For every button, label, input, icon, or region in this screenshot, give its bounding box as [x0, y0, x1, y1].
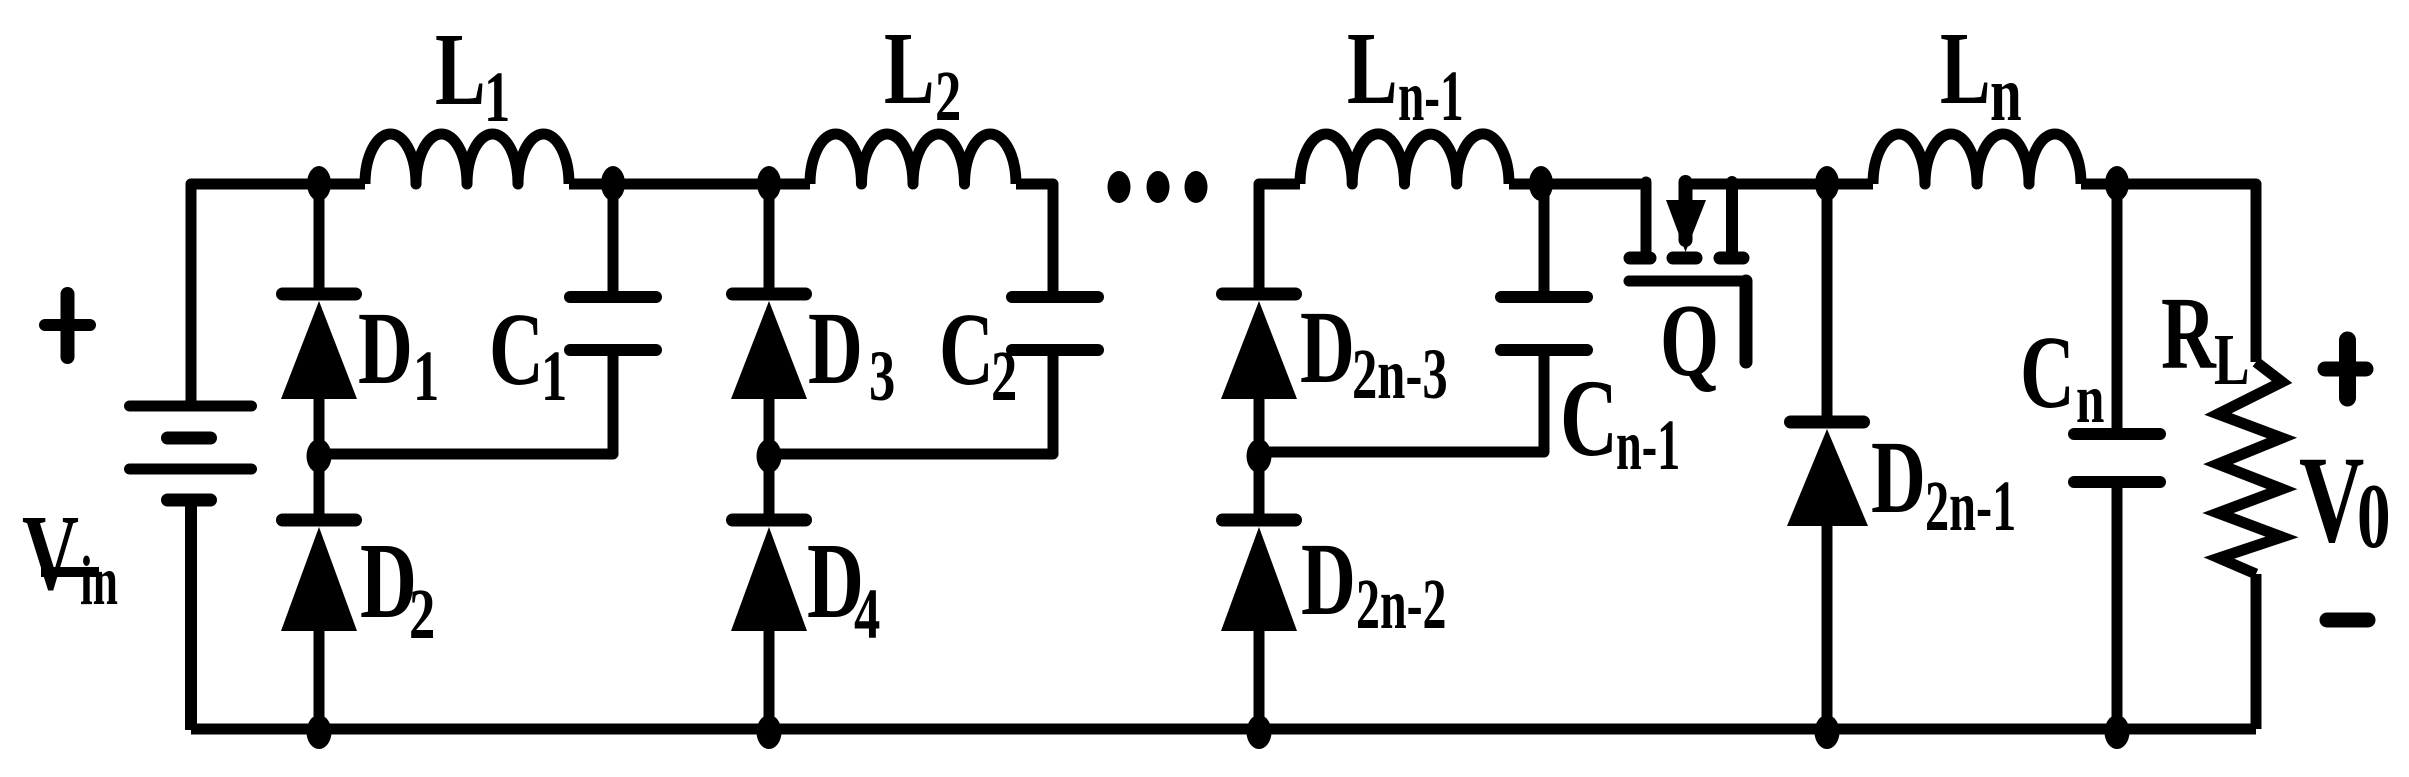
label Ln — [1940, 10, 2022, 137]
svg-text:n: n — [2076, 360, 2104, 438]
wire D3 column — [764, 184, 775, 299]
node bottom Cn — [2105, 715, 2130, 749]
node mid D3 — [757, 439, 782, 473]
svg-text:in: in — [80, 542, 118, 620]
svg-text:C: C — [2020, 314, 2075, 429]
resistor RL zigzag — [2218, 362, 2282, 574]
wire cell3 left corner stub — [1259, 184, 1300, 300]
node top D3 — [757, 166, 781, 201]
svg-text:n: n — [1990, 50, 2022, 137]
label Vin — [22, 494, 118, 620]
transistor Q (MOSFET) — [1629, 182, 1746, 362]
svg-text:L: L — [1940, 10, 1991, 125]
wire mid node to D4 — [764, 448, 775, 525]
node top Cn — [2105, 166, 2129, 201]
inductor L1 — [365, 134, 569, 184]
diode D1 — [281, 294, 357, 399]
svg-text:D: D — [358, 290, 413, 405]
diode D2n-2 — [1221, 520, 1297, 631]
svg-text:1: 1 — [541, 336, 567, 416]
label Cn-1 — [1560, 357, 1680, 485]
wire top rail between L1 and L2 — [569, 179, 810, 190]
svg-text:V: V — [22, 494, 79, 613]
wire mid node to D2n-2 — [1254, 448, 1265, 525]
label C2 — [939, 291, 1017, 416]
label Ln-1 — [1347, 10, 1464, 136]
label Cn — [2020, 314, 2104, 438]
capacitor C2 — [1012, 297, 1098, 350]
wire top rail left segment — [191, 184, 365, 406]
wire battery bottom lead — [185, 500, 197, 730]
wire L2 to C2 corner — [1016, 184, 1053, 292]
wire D2n-2 to bottom rail — [1254, 629, 1265, 729]
svg-text:3: 3 — [869, 336, 895, 416]
wire Cn bottom lead — [2112, 488, 2123, 729]
svg-text:1: 1 — [484, 57, 510, 137]
svg-text:4: 4 — [854, 574, 880, 654]
svg-text:L: L — [2214, 319, 2250, 400]
svg-text:D: D — [1871, 419, 1926, 534]
svg-text:L: L — [435, 11, 486, 126]
svg-text:2: 2 — [409, 574, 435, 654]
node top D1 — [307, 166, 331, 201]
wire top rail Ln-1 to MOSFET drain corner — [1509, 179, 1651, 190]
node top Ln-1 right — [1529, 166, 1553, 201]
label L2 — [884, 10, 961, 136]
label D3 — [808, 290, 895, 416]
wire mid node to C1 elbow — [319, 354, 613, 454]
node mid D2n-3 — [1247, 439, 1272, 473]
wire D2 to bottom rail — [314, 629, 325, 729]
wire D3 to mid node — [764, 397, 775, 460]
svg-text:V: V — [2299, 431, 2364, 568]
svg-text:R: R — [2161, 275, 2217, 390]
plus sign input — [45, 294, 90, 357]
diode D2 — [281, 520, 357, 631]
plus sign output — [2325, 340, 2366, 398]
wire D2n-3 to mid node — [1254, 397, 1265, 460]
wire D2n-1 column — [1822, 184, 1833, 427]
svg-text:L: L — [884, 10, 935, 125]
ellipsis dots — [1108, 171, 1131, 203]
wire Cn top lead — [2112, 184, 2123, 428]
node bottom D4 — [757, 715, 782, 749]
capacitor Cn-1 — [1501, 297, 1587, 350]
wire bottom rail — [191, 724, 2256, 735]
inductor L2 — [810, 134, 1016, 184]
wire D1 column — [314, 184, 325, 299]
svg-text:2n-1: 2n-1 — [1925, 466, 2016, 546]
diode D2n-3 — [1221, 294, 1297, 399]
svg-text:n-1: n-1 — [1616, 405, 1680, 485]
inductor Ln-1 — [1300, 134, 1509, 184]
diode D2n-1 — [1787, 422, 1868, 526]
svg-text:C: C — [1560, 357, 1618, 479]
label D2n-1 — [1871, 419, 2016, 546]
battery Vin symbol — [130, 406, 252, 500]
wire C1 top lead — [608, 184, 619, 294]
node bottom D2 — [307, 715, 332, 749]
svg-text:n-1: n-1 — [1398, 56, 1464, 136]
diode D4 — [731, 520, 807, 631]
svg-text:2: 2 — [991, 336, 1017, 416]
inductor Ln — [1873, 134, 2081, 184]
svg-text:2: 2 — [935, 56, 961, 136]
minus sign output — [2327, 613, 2368, 628]
svg-text:1: 1 — [413, 336, 439, 416]
capacitor Cn — [2074, 434, 2160, 482]
label D2n-2 — [1301, 521, 1447, 644]
node top D2n-1 — [1815, 166, 1839, 201]
wire mid node to D2 — [314, 448, 325, 525]
wire top rail Ln to RL corner — [2081, 184, 2256, 362]
svg-text:D: D — [1300, 289, 1355, 404]
label D2n-3 — [1300, 289, 1448, 414]
label D1 — [358, 290, 439, 416]
svg-text:D: D — [1301, 521, 1356, 636]
svg-text:2n-3: 2n-3 — [1352, 334, 1448, 414]
label L1 — [435, 11, 510, 137]
node mid D1 — [307, 439, 332, 473]
label D2 — [360, 522, 435, 654]
wire mid node to C2 elbow — [769, 354, 1053, 454]
svg-text:C: C — [489, 291, 544, 406]
wire RL bottom lead — [2251, 574, 2262, 729]
node bottom D2n-2 — [1247, 715, 1272, 749]
node top C1 — [601, 166, 625, 201]
svg-text:0: 0 — [2357, 466, 2391, 568]
capacitor C1 — [570, 297, 656, 350]
label D4 — [807, 522, 880, 654]
svg-text:L: L — [1347, 10, 1398, 125]
svg-text:C: C — [939, 291, 994, 406]
label RL — [2161, 275, 2250, 400]
label V0 — [2299, 431, 2391, 568]
wire D1 to mid node — [314, 397, 325, 460]
wire mid node to Cn-1 elbow — [1259, 354, 1544, 452]
wire D2n-1 to bottom rail — [1822, 525, 1833, 729]
wire top rail MOSFET source to Ln — [1680, 179, 1873, 190]
svg-text:Q: Q — [1660, 282, 1719, 397]
node bottom D2n-1 — [1815, 715, 1840, 749]
diode D3 — [731, 294, 807, 399]
wire D4 to bottom rail — [764, 629, 775, 729]
svg-text:2n-2: 2n-2 — [1356, 564, 1447, 644]
label C1 — [489, 291, 567, 416]
wire Cn-1 top lead — [1539, 184, 1550, 294]
svg-text:D: D — [808, 290, 863, 405]
